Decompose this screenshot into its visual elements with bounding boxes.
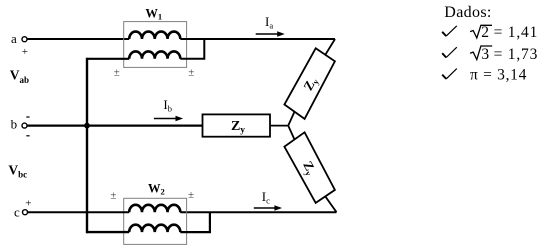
terminal c circle	[23, 210, 28, 215]
svg-text:+: +	[22, 46, 28, 58]
wire Zy top to star node	[288, 112, 294, 126]
wire vertical b bus	[86, 58, 88, 234]
wire W2 voltage coil to b bus	[87, 231, 129, 233]
svg-text:Dados:: Dados:	[444, 4, 491, 21]
wattmeter W2 box	[124, 198, 187, 244]
svg-text:2: 2	[481, 24, 489, 41]
W2 voltage coil	[129, 225, 180, 232]
W1 current coil	[129, 32, 180, 39]
minus sign above b	[26, 116, 29, 118]
svg-text:±: ±	[114, 67, 120, 79]
current arrow Ib	[154, 118, 176, 120]
current arrow Ia	[256, 33, 278, 35]
terminal a circle	[22, 37, 27, 42]
svg-text:±: ±	[188, 67, 194, 79]
checkmark 3	[442, 75, 446, 79]
minus sign below b	[26, 135, 29, 137]
wire W1 to corner (line a)	[180, 38, 335, 40]
svg-text:π = 3,14: π = 3,14	[470, 67, 527, 84]
W2 current coil	[129, 205, 180, 212]
wattmeter W1 box	[124, 22, 187, 68]
load Zy middle box	[203, 114, 271, 136]
svg-text:3: 3	[481, 46, 489, 63]
W1 voltage coil	[129, 51, 180, 58]
svg-text:±: ±	[188, 189, 194, 201]
wire corner a down to Zy top load	[325, 39, 335, 55]
wire c to W2	[28, 211, 130, 213]
checkmark 1	[442, 32, 446, 36]
svg-text:b: b	[11, 116, 18, 131]
load Z top (rotated box)	[284, 48, 335, 119]
svg-text:= 1,73: = 1,73	[494, 46, 539, 63]
sqrt2 radical	[470, 25, 492, 38]
terminal b circle	[22, 123, 27, 128]
wire Zy bottom to corner c	[325, 196, 336, 212]
junction dot b bus	[84, 123, 90, 129]
sqrt3 radical	[470, 46, 492, 60]
svg-text:+: +	[25, 197, 31, 209]
wire Zy to star node	[270, 125, 288, 127]
wire b to Zy	[27, 124, 202, 126]
load Z bottom (rotated box)	[284, 132, 335, 203]
wire star node to Zy bottom	[288, 126, 294, 140]
wire W2 voltage coil tap to line c	[180, 212, 210, 232]
svg-text:= 1,41: = 1,41	[494, 24, 539, 41]
current arrow Ic	[254, 207, 275, 209]
svg-text:a: a	[11, 31, 17, 46]
wire W1 voltage coil to node b (left)	[87, 58, 129, 60]
wire a to W1	[27, 38, 129, 40]
svg-text:±: ±	[110, 190, 116, 202]
wire c corner to W2 (line c)	[180, 211, 336, 213]
wire W1 voltage coil tap to line a	[180, 39, 204, 59]
checkmark 2	[442, 53, 446, 57]
svg-text:c: c	[14, 205, 20, 220]
